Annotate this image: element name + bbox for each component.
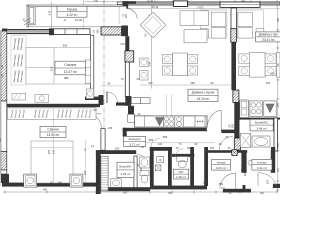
window top wall [220, 2, 260, 7]
kiler right wall [271, 150, 275, 173]
svg-text:20.41 m²: 20.41 m² [262, 38, 275, 42]
column K1 white [174, 1, 188, 7]
bedroom1 door arc [107, 92, 117, 102]
label antre [212, 159, 231, 170]
svg-text:Килер: Килер [258, 160, 267, 164]
svg-text:4.23 m²: 4.23 m² [216, 166, 227, 170]
kitchen burners [164, 116, 175, 127]
svg-text:14.90 m²: 14.90 m² [47, 133, 60, 137]
terrace parapet left [27, 5, 28, 27]
svg-text:70: 70 [176, 146, 179, 150]
living west wall solid block [125, 96, 131, 106]
svg-text:220: 220 [244, 171, 247, 176]
bottom dimension line [3, 191, 277, 193]
svg-text:1.48 m²: 1.48 m² [176, 175, 186, 179]
label bedroom2 [40, 127, 66, 138]
living coffee table [184, 30, 207, 43]
svg-text:210: 210 [266, 179, 270, 184]
living dining table [173, 53, 188, 76]
label living [188, 89, 218, 101]
kitchen corner unit wall [128, 106, 134, 116]
bedroom1 right wall [91, 35, 94, 97]
neighbor kitchen bottom wall [240, 118, 281, 120]
kitchen corner unit [128, 114, 135, 122]
svg-text:320: 320 [271, 72, 276, 75]
svg-text:90: 90 [211, 81, 214, 85]
svg-text:8 9: 8 9 [221, 187, 225, 190]
bath339 tub ladder [101, 156, 108, 191]
terrace french door arc [127, 9, 137, 19]
bath339 top wall [96, 150, 136, 154]
dim 585 bedroom1 [54, 83, 91, 85]
svg-text:10 10: 10 10 [147, 0, 154, 2]
left exterior wall plain low [1, 170, 7, 174]
axis line B [83, 0, 85, 30]
dim line terrace vertical [51, 2, 53, 28]
living west wall hatch block [125, 51, 134, 62]
svg-text:130: 130 [210, 147, 215, 150]
neighbor dining table 2 clipped [277, 52, 281, 77]
label kiler [252, 159, 272, 170]
svg-text:583: 583 [163, 135, 168, 139]
wc zone top1 [150, 147, 172, 151]
svg-text:490: 490 [43, 189, 48, 192]
terrace floor edge [28, 26, 122, 28]
terrace parapet top [27, 5, 122, 6]
svg-text:315: 315 [49, 66, 53, 71]
living armchair diamond [140, 12, 165, 37]
svg-text:∅023: ∅023 [197, 6, 204, 10]
bedroom2 door arc [87, 114, 101, 129]
center wall hatch 3 [234, 138, 240, 150]
label neighbor living [256, 32, 281, 42]
svg-text:Баня/WC: Баня/WC [119, 164, 131, 168]
kiler lamp circle [248, 160, 253, 165]
svg-text:5.71 m²: 5.71 m² [129, 142, 139, 146]
svg-text:50 23: 50 23 [152, 5, 159, 9]
svg-text:Спалня: Спалня [47, 128, 58, 132]
wall right of living door [222, 130, 235, 134]
terrace door symbol [28, 6, 35, 25]
bd1 chair item [35, 95, 49, 103]
west wall pier 1 [2, 29, 7, 36]
kitchen sink [175, 116, 183, 127]
antre top wall 2 [237, 150, 247, 153]
top wall corner stub [123, 1, 128, 6]
shaft x box [155, 165, 161, 171]
left exterior wall hatched upper [1, 31, 7, 101]
axis line C [234, 0, 236, 12]
bath339 washbasin [111, 179, 121, 188]
kitchen 3-dot unit [195, 116, 205, 127]
axis line A [103, 0, 105, 152]
bd2 nightstand 1 [24, 174, 37, 187]
svg-text:458: 458 [190, 81, 195, 85]
wc top wall [172, 154, 194, 157]
living west wall upper [125, 36, 129, 51]
antre-kiler wall [241, 150, 246, 173]
bd2 bed [31, 141, 73, 183]
small room door arc [151, 139, 160, 148]
living door arc [207, 110, 222, 132]
svg-text:220: 220 [96, 29, 100, 34]
svg-text:3.11 m²: 3.11 m² [257, 166, 267, 170]
label bath339 [117, 162, 134, 177]
svg-text:±0.00: ±0.00 [75, 18, 82, 22]
svg-text:Спалня: Спалня [64, 63, 76, 67]
svg-text:320: 320 [266, 81, 271, 85]
svg-text:415: 415 [94, 0, 99, 2]
svg-text:Дневна с кухня: Дневна с кухня [192, 91, 215, 95]
living west wall lower [125, 62, 129, 96]
svg-text:160: 160 [115, 147, 120, 151]
west wall pier 2 [49, 28, 54, 35]
svg-text:+26: +26 [1, 73, 4, 78]
bd1 bed [26, 48, 54, 85]
svg-text:582: 582 [149, 138, 154, 142]
dim 337 row [140, 84, 232, 86]
bd2 wardrobe [8, 108, 97, 120]
bd2 east wall below door [101, 129, 105, 151]
bath339 right wall [134, 156, 137, 188]
bd1 wardrobe [11, 36, 26, 86]
label bedroom1 [55, 61, 86, 75]
bottom wall bath zone [96, 187, 150, 191]
center wall mid solid [231, 42, 236, 90]
center dividing wall upper [231, 8, 236, 29]
center wall hatch 1 [231, 29, 237, 43]
landing wall [223, 189, 251, 193]
svg-text:13.47 m²: 13.47 m² [64, 70, 78, 74]
svg-text:WC: WC [179, 170, 184, 174]
label bath348 [250, 119, 273, 131]
living dining chairs [162, 55, 172, 64]
svg-text:3.39 m²: 3.39 m² [121, 172, 131, 176]
svg-text:415: 415 [48, 10, 52, 15]
center wall hatch 2 [233, 90, 239, 102]
wc right wall [190, 147, 194, 186]
wc zone wall v2 [168, 147, 172, 186]
svg-text:Баня/WC: Баня/WC [255, 121, 269, 125]
svg-text:200: 200 [231, 123, 235, 128]
wc zone wall v1 [150, 147, 154, 186]
kitchen upper cabinets [131, 98, 140, 104]
kiler wall lower block [243, 185, 246, 190]
top wall [128, 2, 280, 5]
svg-text:100: 100 [155, 146, 160, 150]
dim line living vertical [151, 4, 153, 89]
top wall corner dark [123, 1, 136, 4]
svg-text:325: 325 [48, 149, 51, 154]
bd1 small desk [12, 93, 26, 100]
living desk chairs [140, 58, 149, 67]
neighbor hood [264, 101, 276, 116]
svg-text:585: 585 [64, 76, 69, 80]
entrance door arc [220, 173, 236, 189]
svg-text:24.19 m²: 24.19 m² [197, 97, 210, 101]
kiler door arc [258, 173, 276, 187]
corridor label top-left step wall [123, 128, 127, 137]
left edge tiny dims [0, 30, 2, 186]
svg-text:3.48 m²: 3.48 m² [256, 126, 267, 130]
label corridor [123, 136, 145, 146]
svg-text:505: 505 [63, 43, 68, 47]
bedroom1 bottom wall upper [85, 97, 104, 100]
svg-text:220: 220 [140, 166, 143, 171]
antre top wall [208, 150, 232, 153]
bd1 door dim [100, 85, 123, 87]
svg-text:440: 440 [58, 181, 63, 185]
svg-text:337: 337 [148, 81, 153, 85]
svg-text:Тераса: Тераса [67, 7, 78, 11]
bedroom1 SE stub [99, 95, 104, 105]
terrace end boundary line [118, 5, 120, 24]
svg-text:130: 130 [83, 170, 87, 175]
left wall bottom corner solid [1, 174, 9, 183]
svg-text:100: 100 [158, 143, 163, 146]
svg-text:(86): (86) [219, 183, 224, 186]
antre left wall [204, 147, 208, 186]
svg-text:Антре: Антре [217, 160, 226, 164]
svg-text:82: 82 [187, 146, 190, 150]
svg-text:219 17: 219 17 [120, 43, 128, 46]
dims under kitchen [140, 142, 215, 144]
neighbor upper rect set [237, 10, 263, 38]
bath348 washbasin [252, 136, 270, 147]
bedroom1 door leaf [106, 92, 107, 103]
wc door arc [175, 149, 183, 157]
svg-text:06: 06 [144, 33, 148, 37]
dining set left room [201, 10, 227, 38]
right dimension line [277, 2, 279, 192]
shaft box top antre [232, 150, 237, 156]
svg-text:105: 105 [108, 126, 113, 130]
svg-text:015: 015 [241, 0, 246, 2]
svg-text:4.22 m²: 4.22 m² [67, 13, 78, 17]
label wc [173, 169, 188, 179]
hatched wall (terrace south) [101, 27, 122, 35]
bath339 door arc [137, 155, 146, 164]
kitchen hood [156, 118, 164, 126]
left exterior wall plain mid [1, 101, 7, 152]
neighbor burners [250, 101, 262, 116]
niche washbasin [140, 157, 150, 168]
dim 505 bedroom1 [54, 46, 91, 48]
kitchen bottom wall / corridor top [123, 128, 207, 131]
bath348 shower [240, 134, 251, 148]
bottom wall bedroom2 [2, 183, 96, 187]
wall right of bd1 door [116, 102, 130, 105]
bottom wall wc zone [150, 186, 207, 190]
center wall lower solid [234, 102, 239, 138]
top dimension line [85, 1, 280, 3]
neighbor fridge [240, 100, 249, 118]
bath339 left wall [96, 150, 101, 194]
solid block SW of terrace [122, 26, 129, 37]
bd1 corner chair [86, 89, 93, 99]
left exterior wall hatched lower [1, 152, 7, 171]
living room top edge line [128, 7, 231, 9]
svg-text:Дневна с кух: Дневна с кух [259, 33, 278, 37]
bd2 dims [53, 108, 55, 182]
bd2 nightstand 2 [70, 174, 83, 187]
kitchen counter [135, 116, 207, 127]
label terrace [57, 6, 87, 17]
niche toilet [140, 171, 149, 176]
glazed door panes [54, 29, 90, 35]
window west (bedroom1) [7, 29, 49, 30]
kiler right wall upper ext [271, 147, 275, 150]
bd1 side wardrobe column [85, 60, 90, 83]
bath348 door arc [219, 136, 233, 149]
living sofa [180, 11, 208, 26]
svg-text:+20: +20 [1, 64, 4, 69]
svg-text:Коридор: Коридор [129, 137, 141, 141]
svg-text:220: 220 [125, 13, 128, 18]
mid wall bedroom1/bedroom2 [7, 104, 100, 107]
svg-text:м²: м² [64, 19, 67, 22]
parapet end box [117, 2, 122, 5]
svg-text:340: 340 [53, 149, 56, 154]
ok box [157, 157, 164, 163]
neighbor dining table [250, 52, 265, 77]
bottom right corner wall [273, 184, 280, 188]
bath348 right wall [274, 118, 278, 151]
wc toilet [177, 157, 188, 162]
